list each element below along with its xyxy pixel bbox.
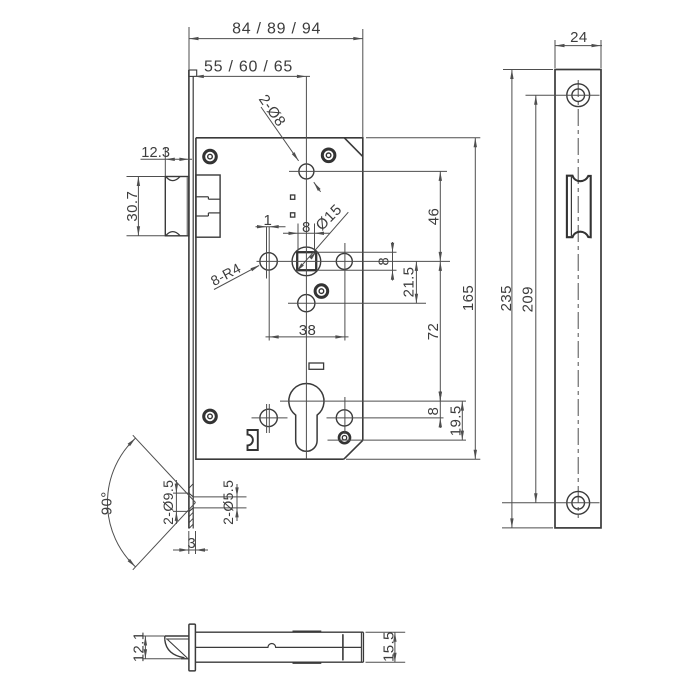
horizontal extension line through bottom boss — [328, 439, 467, 441]
latch bolt tail block — [196, 175, 220, 237]
dimension 55/60/65 backset — [194, 58, 310, 78]
svg-text:165: 165 — [460, 285, 477, 311]
svg-text:1: 1 — [264, 212, 273, 229]
dimension 15.5 bolt width — [366, 631, 406, 662]
latch bolt pin slot — [342, 635, 344, 660]
faceplate hatching below hole — [189, 484, 193, 528]
faceplate top screw hole — [526, 84, 600, 107]
svg-text:2-Ø5.5: 2-Ø5.5 — [220, 480, 236, 525]
svg-text:3: 3 — [187, 535, 196, 552]
dimension 84/89/94 overall depth — [189, 21, 363, 138]
latch bolt body (bottom view) — [195, 632, 363, 662]
svg-text:2-Ø9.5: 2-Ø9.5 — [160, 480, 176, 525]
follower circle (Ø15) — [292, 247, 321, 276]
horizontal centerline bottom holes right — [327, 417, 444, 419]
lock case outline — [196, 138, 363, 459]
svg-text:46: 46 — [425, 208, 442, 226]
faceplate strip back edge line — [192, 76, 194, 528]
latch guide ribs — [293, 631, 322, 663]
screw boss bottom-left — [204, 410, 217, 423]
dimension 8 square height — [375, 242, 394, 281]
svg-text:8: 8 — [375, 257, 392, 266]
dimension 21.5 — [400, 261, 418, 303]
dimension 8 cylinder to hole — [425, 391, 442, 428]
horizontal centerline cylinder — [280, 400, 466, 402]
dimension 165 case height — [346, 138, 480, 459]
faceplate plate outline (side view) — [555, 70, 601, 528]
spring clip cutout — [248, 430, 258, 450]
screw boss top-left — [204, 150, 217, 163]
dimension 12.3 latch projection — [141, 145, 193, 176]
svg-text:235: 235 — [498, 285, 515, 311]
latch bolt head (front view) — [165, 177, 189, 236]
horizontal centerline bottom holes left — [252, 417, 288, 419]
svg-text:8: 8 — [425, 407, 442, 416]
faceplate bar (bottom view) — [189, 624, 196, 671]
fixing hole left of follower (R4) — [260, 253, 277, 270]
dimension 235 plate length — [498, 70, 553, 528]
vertical line left hole center — [268, 227, 270, 341]
vertical lines bottom-left hole — [267, 404, 270, 433]
90 degree angle side lines — [133, 435, 196, 570]
faceplate strip front edge line — [188, 70, 190, 529]
dimension 46 — [425, 171, 442, 261]
extension line square top — [316, 251, 396, 253]
hub hole top (Ø8) — [299, 164, 314, 179]
svg-text:38: 38 — [299, 322, 317, 339]
svg-text:15.5: 15.5 — [380, 631, 397, 662]
90 degree dimension arc — [98, 438, 135, 567]
hub hole lower (Ø8) — [298, 295, 315, 312]
latch bolt head (bottom view) — [165, 636, 189, 659]
dimension 8 square width — [283, 219, 330, 251]
svg-text:12.3: 12.3 — [141, 145, 170, 161]
dimension 2-Ø9.5 countersink — [160, 480, 190, 525]
dimension 24 plate width — [555, 29, 603, 68]
vertical line through right hole lower — [344, 397, 346, 434]
countersink hole section on faceplate — [189, 493, 193, 511]
latch head bottom bevel arc — [166, 232, 180, 236]
horizontal centerline follower row — [257, 260, 451, 262]
latch head top bevel arc — [166, 177, 180, 181]
dimension 3 faceplate lip — [173, 531, 208, 554]
small rectangular hole above cylinder — [309, 363, 324, 369]
latch bolt middle line with spring notch — [195, 644, 361, 648]
horizontal centerline top hub hole — [289, 170, 447, 172]
faceplate bottom screw hole — [502, 491, 600, 514]
small square hole upper — [291, 195, 295, 199]
euro cylinder hole profile — [289, 384, 324, 452]
screw boss top-right — [322, 149, 335, 162]
fixing hole bottom-right (R4) — [336, 410, 352, 426]
svg-text:30.7: 30.7 — [124, 191, 141, 222]
case bottom-right chamfer — [344, 440, 363, 459]
svg-text:24: 24 — [570, 29, 588, 46]
svg-text:8: 8 — [302, 219, 311, 236]
small square hole lower — [291, 213, 295, 217]
vertical line left hole 1mm offset — [266, 227, 268, 279]
dimension 12.1 latch head width — [131, 632, 189, 663]
dimension 19.5 — [448, 401, 465, 440]
follower square spindle hole — [297, 252, 316, 270]
dimension 2-Ø5.5 hole — [194, 480, 247, 525]
latch opening in faceplate — [567, 176, 591, 238]
dimension 209 screw hole spacing — [519, 95, 537, 503]
case top-right chamfer — [344, 138, 363, 157]
dimension 72 — [425, 261, 442, 401]
label Ø15 with leader — [296, 201, 348, 271]
svg-text:19.5: 19.5 — [448, 405, 465, 436]
dimension 30.7 latch height — [124, 177, 165, 236]
svg-text:84 / 89 / 94: 84 / 89 / 94 — [232, 21, 321, 38]
vertical line through right holes upper — [344, 243, 346, 341]
fixing hole right of follower (R4) — [336, 253, 352, 269]
svg-text:209: 209 — [519, 286, 536, 312]
dimension 1 hole offset — [256, 212, 286, 229]
svg-text:21.5: 21.5 — [400, 267, 417, 298]
dimension 38 hole spacing — [266, 322, 349, 339]
latch tail step detail — [196, 197, 220, 216]
vertical centerline main — [305, 76, 307, 459]
svg-text:12.1: 12.1 — [131, 632, 148, 663]
screw boss middle — [315, 285, 328, 298]
label 8-R4 with leader — [208, 260, 260, 290]
svg-text:72: 72 — [425, 323, 442, 341]
svg-text:90°: 90° — [98, 491, 115, 515]
faceplate top end cap — [189, 70, 197, 76]
extension line square bottom — [316, 269, 396, 271]
label 2-Ø8 with leader — [255, 92, 321, 192]
horizontal centerline lower hub hole — [288, 302, 426, 304]
screw boss bottom-right (small) — [339, 432, 350, 443]
svg-text:55 / 60 / 65: 55 / 60 / 65 — [204, 58, 293, 75]
fixing hole bottom-left (R4) — [260, 409, 277, 426]
faceplate vertical centerline — [577, 80, 579, 518]
